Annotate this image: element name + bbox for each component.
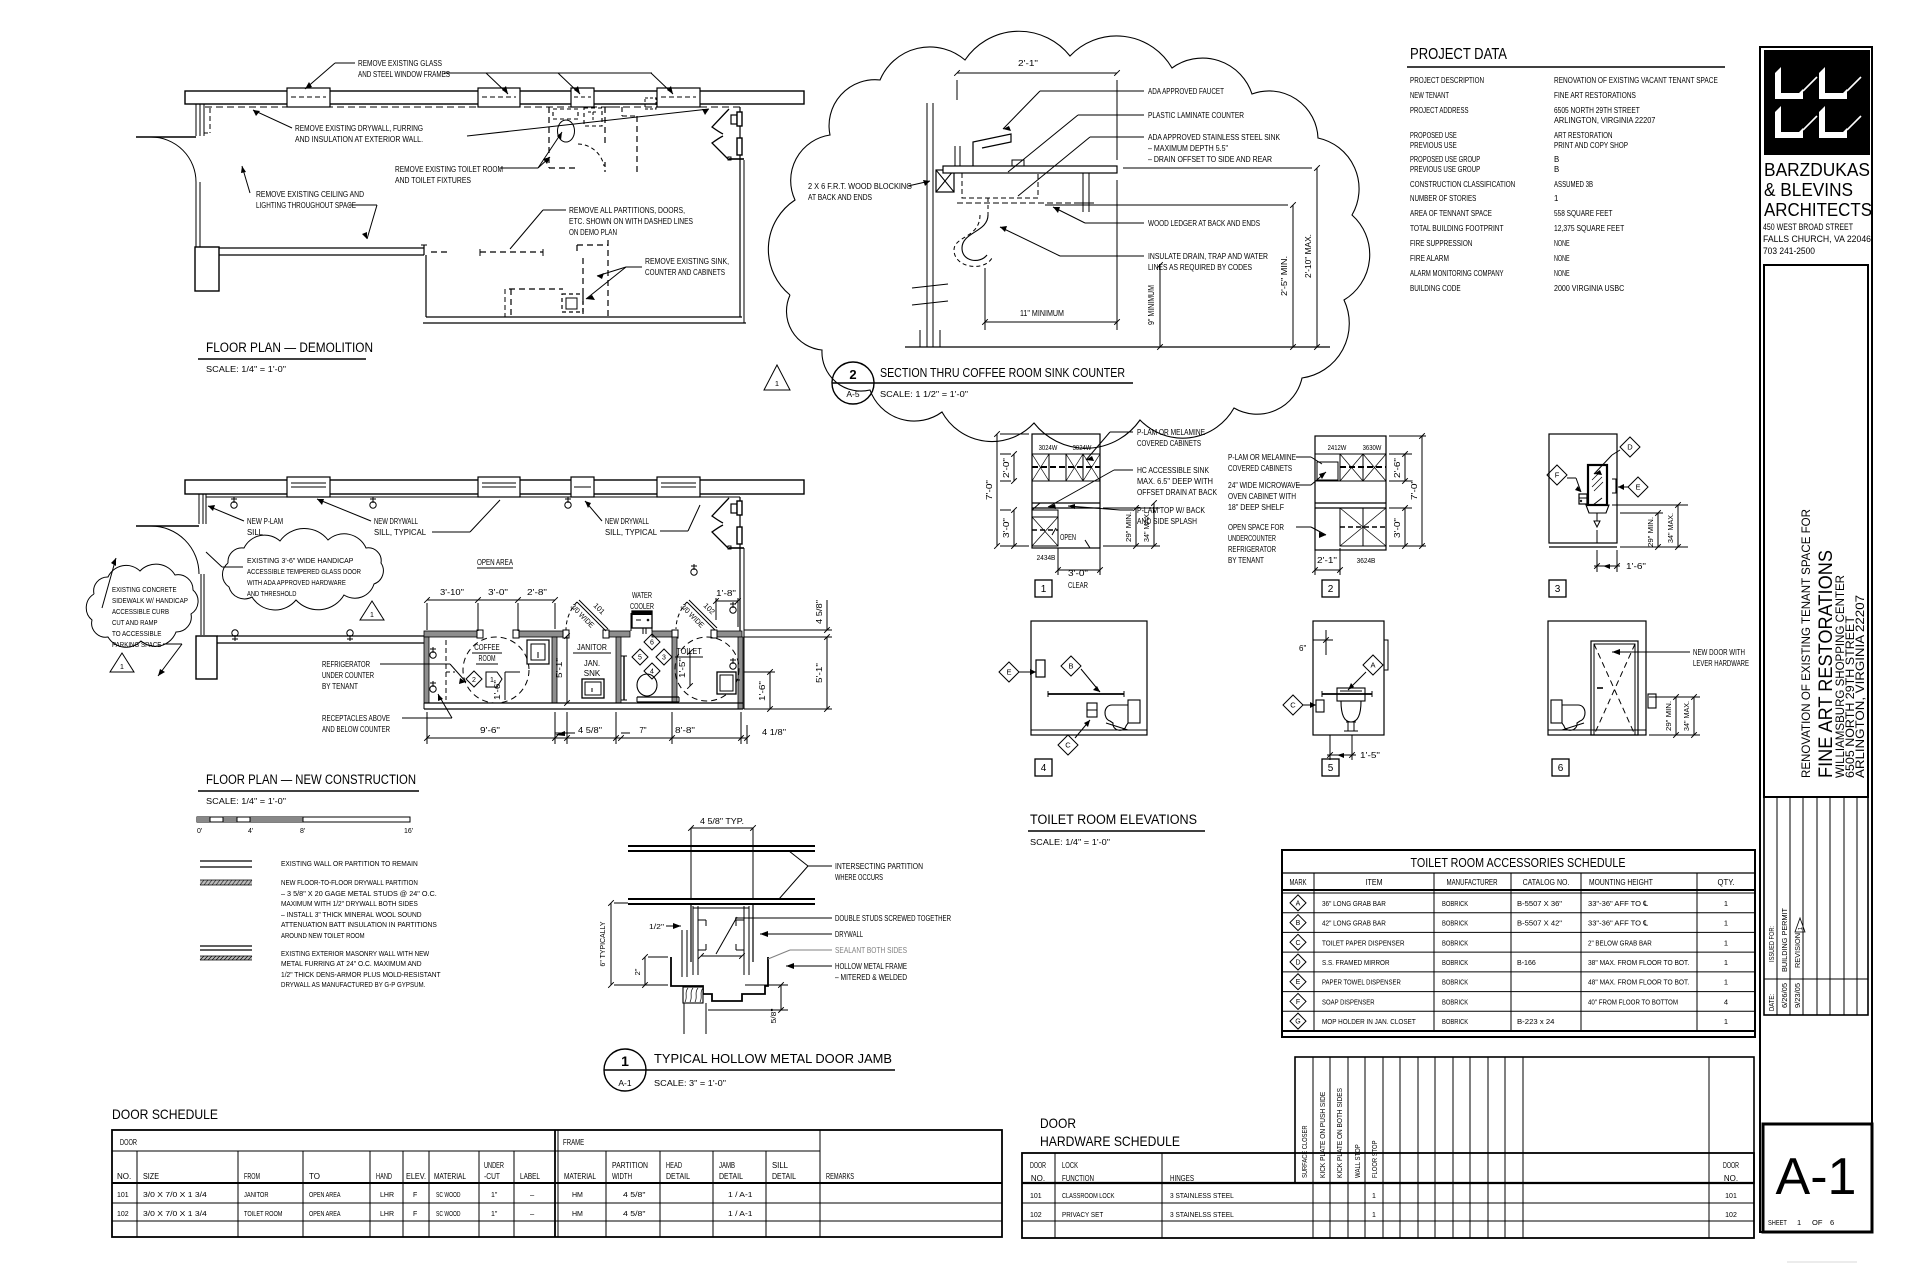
new plan entry door leaf bbox=[136, 525, 199, 527]
dimension 5'-1 right bbox=[826, 637, 828, 709]
svg-text:REVISION: REVISION bbox=[1795, 933, 1802, 968]
elevation 4 diamond E bbox=[999, 662, 1019, 682]
svg-text:1: 1 bbox=[370, 612, 374, 619]
svg-text:WIDTH: WIDTH bbox=[612, 1172, 632, 1181]
door schedule column lines bbox=[136, 1151, 138, 1237]
svg-text:DOOR: DOOR bbox=[1723, 1161, 1739, 1170]
svg-text:NONE: NONE bbox=[1554, 239, 1570, 248]
svg-text:PRINT AND COPY SHOP: PRINT AND COPY SHOP bbox=[1554, 141, 1628, 150]
toilet lavatory bbox=[717, 672, 736, 694]
svg-text:SIDEWALK W/ HANDICAP: SIDEWALK W/ HANDICAP bbox=[112, 596, 188, 605]
svg-text:METAL FURRING AT 24" O.C. MAXI: METAL FURRING AT 24" O.C. MAXIMUM AND bbox=[281, 959, 422, 968]
svg-text:4 5/8": 4 5/8" bbox=[623, 1190, 646, 1199]
new plan window mullion 2 bbox=[478, 477, 520, 497]
svg-text:JANITOR: JANITOR bbox=[577, 642, 607, 652]
svg-text:UNDERCOUNTER: UNDERCOUNTER bbox=[1228, 534, 1276, 543]
dimension 2'-10 max vertical bbox=[1316, 168, 1318, 347]
svg-text:3/0 X 7/0 X 1 3/4: 3/0 X 7/0 X 1 3/4 bbox=[143, 1190, 207, 1199]
svg-text:– INSTALL 3" THICK MINERAL WOO: – INSTALL 3" THICK MINERAL WOOL SOUND bbox=[281, 910, 422, 919]
triangle revision marker 1 at cloud bbox=[764, 365, 790, 390]
elevation 2 dims right bbox=[1389, 453, 1412, 455]
new plan entry side rect 2 bbox=[737, 527, 742, 544]
svg-text:ROOM: ROOM bbox=[479, 653, 496, 663]
svg-text:CUT AND RAMP: CUT AND RAMP bbox=[112, 618, 158, 627]
svg-text:HEAD: HEAD bbox=[666, 1161, 682, 1170]
leader from glass door cloud bbox=[222, 566, 243, 568]
elevation marker pentagon 1 bbox=[486, 672, 502, 687]
svg-text:FLOOR PLAN — NEW CONSTRUCTION: FLOOR PLAN — NEW CONSTRUCTION bbox=[206, 772, 416, 787]
cloud existing concrete sidewalk note bbox=[86, 564, 198, 647]
svg-text:– 3 5/8" X 20 GAGE METAL STUDS: – 3 5/8" X 20 GAGE METAL STUDS @ 24" O.C… bbox=[281, 889, 437, 898]
svg-text:102: 102 bbox=[1725, 1212, 1737, 1219]
new plan room block north wall segments bbox=[424, 631, 477, 637]
svg-text:RENOVATION OF EXISTING VACANT: RENOVATION OF EXISTING VACANT TENANT SPA… bbox=[1554, 76, 1718, 85]
svg-text:AND SIDE SPLASH: AND SIDE SPLASH bbox=[1137, 517, 1197, 526]
svg-text:B: B bbox=[1554, 165, 1559, 174]
svg-text:18" DEEP SHELF: 18" DEEP SHELF bbox=[1228, 503, 1284, 512]
svg-text:REMOVE EXISTING GLASS: REMOVE EXISTING GLASS bbox=[358, 59, 442, 68]
svg-text:1'-8": 1'-8" bbox=[716, 589, 736, 598]
svg-text:HM: HM bbox=[572, 1211, 583, 1218]
svg-text:AND BELOW COUNTER: AND BELOW COUNTER bbox=[322, 725, 390, 734]
svg-text:PROJECT ADDRESS: PROJECT ADDRESS bbox=[1410, 106, 1469, 115]
demolished sink dashed bbox=[553, 109, 578, 119]
leader from parking space text bbox=[163, 643, 182, 645]
svg-text:WHERE OCCURS: WHERE OCCURS bbox=[835, 873, 883, 882]
svg-text:1: 1 bbox=[775, 379, 779, 388]
demolition plan dashed drywall line at exterior wall bbox=[205, 106, 740, 108]
svg-text:CONSTRUCTION CLASSIFICATION: CONSTRUCTION CLASSIFICATION bbox=[1410, 180, 1515, 189]
svg-text:NEW DOOR WITH: NEW DOOR WITH bbox=[1693, 648, 1745, 657]
svg-text:ELEV.: ELEV. bbox=[406, 1172, 426, 1181]
svg-text:ON DEMO PLAN: ON DEMO PLAN bbox=[569, 228, 617, 237]
svg-text:FALLS CHURCH, VA 22046: FALLS CHURCH, VA 22046 bbox=[1763, 234, 1871, 244]
svg-text:4 5/8": 4 5/8" bbox=[815, 600, 824, 624]
svg-text:SILL, TYPICAL: SILL, TYPICAL bbox=[374, 528, 427, 537]
leader to dashed partitions bbox=[543, 209, 566, 211]
wall end caps bbox=[477, 630, 483, 638]
elevation 5 dim 1'-5 bbox=[1329, 735, 1331, 760]
svg-text:WATER: WATER bbox=[632, 591, 652, 600]
svg-text:LABEL: LABEL bbox=[520, 1172, 540, 1181]
legend new partition symbol bbox=[200, 880, 252, 885]
faint line below sheet box bbox=[1787, 1261, 1857, 1263]
svg-text:2'-10" MAX.: 2'-10" MAX. bbox=[1304, 234, 1313, 278]
section counter top bbox=[943, 166, 1117, 173]
svg-text:40" FROM FLOOR TO BOTTOM: 40" FROM FLOOR TO BOTTOM bbox=[1588, 997, 1678, 1006]
elevation 3 outline bbox=[1549, 434, 1617, 543]
coffee room sink bbox=[527, 640, 549, 664]
elevation 2 outline bbox=[1315, 436, 1386, 550]
svg-text:33"-36" AFF TO ℄: 33"-36" AFF TO ℄ bbox=[1588, 899, 1649, 908]
svg-text:SCALE: 1/4" = 1'-0": SCALE: 1/4" = 1'-0" bbox=[206, 365, 286, 374]
new plan entry bent door leaf top bbox=[712, 498, 729, 523]
svg-text:PROJECT DESCRIPTION: PROJECT DESCRIPTION bbox=[1410, 76, 1484, 85]
svg-text:ARLINGTON, VIRGINIA 22207: ARLINGTON, VIRGINIA 22207 bbox=[1554, 116, 1655, 125]
toilet grab bar west bbox=[623, 656, 625, 700]
svg-text:NEW P-LAM: NEW P-LAM bbox=[247, 517, 283, 526]
svg-text:1: 1 bbox=[621, 1053, 629, 1069]
svg-text:2: 2 bbox=[849, 367, 856, 382]
svg-text:PROPOSED USE GROUP: PROPOSED USE GROUP bbox=[1410, 155, 1480, 164]
svg-text:C: C bbox=[1065, 741, 1071, 750]
svg-text:COFFEE: COFFEE bbox=[474, 642, 500, 652]
svg-text:SC WOOD: SC WOOD bbox=[436, 1192, 461, 1199]
svg-text:A: A bbox=[1370, 661, 1375, 670]
svg-text:INTERSECTING PARTITION: INTERSECTING PARTITION bbox=[835, 862, 923, 871]
section wall base bbox=[919, 330, 921, 347]
svg-text:0': 0' bbox=[197, 828, 202, 835]
leader to exterior wall right bbox=[467, 109, 709, 136]
section counter end cap bbox=[1012, 160, 1024, 166]
svg-text:FRAME: FRAME bbox=[563, 1137, 584, 1147]
svg-text:4 5/8" TYP.: 4 5/8" TYP. bbox=[700, 817, 744, 826]
svg-text:2'-5" MIN.: 2'-5" MIN. bbox=[1280, 256, 1289, 296]
svg-text:-CUT: -CUT bbox=[484, 1172, 500, 1181]
svg-text:DRYWALL: DRYWALL bbox=[835, 930, 863, 939]
svg-text:FIRE SUPPRESSION: FIRE SUPPRESSION bbox=[1410, 239, 1472, 248]
svg-text:ISSUED FOR:: ISSUED FOR: bbox=[1769, 926, 1776, 962]
svg-text:NEW FLOOR-TO-FLOOR DRYWALL PAR: NEW FLOOR-TO-FLOOR DRYWALL PARTITION bbox=[281, 878, 418, 887]
new plan window mullion 3 bbox=[571, 477, 594, 497]
svg-text:KICK PLATE ON BOTH SIDES: KICK PLATE ON BOTH SIDES bbox=[1335, 1088, 1344, 1178]
svg-text:3/0 X 7/0 X 1 3/4: 3/0 X 7/0 X 1 3/4 bbox=[143, 1209, 207, 1218]
new plan drywall sill line bbox=[206, 496, 740, 498]
section sink bowl dashed bbox=[962, 173, 1038, 198]
svg-text:D: D bbox=[1295, 960, 1300, 967]
svg-text:QTY.: QTY. bbox=[1718, 877, 1735, 887]
svg-text:SC WOOD: SC WOOD bbox=[436, 1211, 461, 1218]
svg-text:RENOVATION OF EXISTING TENANT: RENOVATION OF EXISTING TENANT SPACE FOR bbox=[1799, 509, 1813, 778]
svg-text:2 X 6 F.R.T. WOOD BLOCKING: 2 X 6 F.R.T. WOOD BLOCKING bbox=[808, 182, 912, 191]
svg-text:PREVIOUS USE GROUP: PREVIOUS USE GROUP bbox=[1410, 165, 1480, 174]
svg-text:ETC. SHOWN ON WITH DASHED LINE: ETC. SHOWN ON WITH DASHED LINES bbox=[569, 217, 693, 226]
elevation 3 sink bbox=[1586, 505, 1609, 513]
dimension 9 inch minimum vertical bbox=[1159, 265, 1161, 347]
arrow from sidewalk cloud bbox=[102, 558, 116, 608]
svg-text:DOOR: DOOR bbox=[1030, 1161, 1046, 1170]
svg-text:PROJECT DATA: PROJECT DATA bbox=[1410, 46, 1507, 63]
jamb detail studs between partitions bbox=[690, 828, 692, 899]
svg-text:SHEET: SHEET bbox=[1768, 1218, 1787, 1227]
svg-text:5'-1": 5'-1" bbox=[555, 658, 564, 678]
svg-text:102: 102 bbox=[1030, 1212, 1042, 1219]
elevation 1 counter bbox=[1032, 502, 1100, 504]
demolished door swing dashed bbox=[578, 144, 604, 166]
elevation 5 grab bar side bbox=[1322, 693, 1372, 695]
svg-text:COUNTER AND CABINETS: COUNTER AND CABINETS bbox=[645, 268, 725, 277]
svg-text:REMOVE EXISTING TOILET ROOM: REMOVE EXISTING TOILET ROOM bbox=[395, 165, 503, 174]
svg-text:OPEN AREA: OPEN AREA bbox=[477, 558, 514, 567]
svg-text:BARZDUKAS: BARZDUKAS bbox=[1764, 160, 1870, 180]
svg-text:E: E bbox=[1006, 668, 1011, 677]
svg-text:F: F bbox=[413, 1211, 417, 1218]
demolition plan left pier bbox=[195, 247, 219, 291]
svg-text:COVERED CABINETS: COVERED CABINETS bbox=[1137, 439, 1201, 448]
svg-text:JAMB: JAMB bbox=[719, 1161, 735, 1170]
demolition plan entry side rect 1 bbox=[731, 115, 737, 124]
svg-text:2" BELOW GRAB BAR: 2" BELOW GRAB BAR bbox=[1588, 938, 1652, 947]
svg-text:BOBRICK: BOBRICK bbox=[1442, 938, 1468, 947]
dimension 1'-6 right bbox=[744, 671, 775, 673]
new plan left wall below door bbox=[200, 574, 202, 635]
svg-text:MANUFACTURER: MANUFACTURER bbox=[1447, 877, 1498, 887]
svg-text:33"-36" AFF TO ℄: 33"-36" AFF TO ℄ bbox=[1588, 919, 1649, 928]
svg-text:ASSUMED 3B: ASSUMED 3B bbox=[1554, 180, 1593, 189]
svg-text:6: 6 bbox=[1558, 763, 1564, 774]
svg-text:6: 6 bbox=[1830, 1218, 1834, 1227]
svg-text:1: 1 bbox=[1372, 1212, 1376, 1219]
janitor east wall bbox=[616, 637, 621, 703]
bottom dimension string bbox=[427, 737, 747, 739]
svg-text:NONE: NONE bbox=[1554, 269, 1570, 278]
svg-text:B: B bbox=[1296, 920, 1301, 927]
elevation 4 marker box bbox=[1035, 759, 1052, 776]
svg-text:LOCK: LOCK bbox=[1062, 1161, 1078, 1170]
svg-text:FUNCTION: FUNCTION bbox=[1062, 1174, 1094, 1183]
svg-text:AND STEEL WINDOW FRAMES: AND STEEL WINDOW FRAMES bbox=[358, 70, 450, 79]
elevation 1 marker box bbox=[1035, 580, 1052, 597]
jamb detail drywall faces bbox=[690, 904, 692, 962]
svg-text:ALARM MONITORING COMPANY: ALARM MONITORING COMPANY bbox=[1410, 269, 1504, 278]
svg-text:TOTAL BUILDING FOOTPRINT: TOTAL BUILDING FOOTPRINT bbox=[1410, 224, 1504, 233]
section wall break marks bbox=[912, 284, 948, 288]
svg-text:HARDWARE SCHEDULE: HARDWARE SCHEDULE bbox=[1040, 1133, 1180, 1149]
svg-text:OVEN CABINET WITH: OVEN CABINET WITH bbox=[1228, 492, 1296, 501]
svg-text:P-LAM OR MELAMINE: P-LAM OR MELAMINE bbox=[1137, 428, 1205, 437]
svg-text:9/23/05: 9/23/05 bbox=[1795, 983, 1802, 1008]
coffee janitor wall bbox=[552, 637, 557, 703]
svg-text:450 WEST BROAD STREET: 450 WEST BROAD STREET bbox=[1763, 222, 1853, 232]
svg-text:B: B bbox=[1554, 155, 1559, 164]
svg-text:1: 1 bbox=[1724, 899, 1728, 908]
svg-text:2'-8": 2'-8" bbox=[527, 588, 547, 597]
leader to exterior wall left bbox=[253, 110, 292, 128]
title block outer border bbox=[1760, 47, 1872, 1232]
svg-text:DOUBLE STUDS SCREWED TOGETHER: DOUBLE STUDS SCREWED TOGETHER bbox=[835, 914, 951, 923]
svg-text:LHR: LHR bbox=[380, 1211, 394, 1218]
svg-text:FINE ART RESTORATIONS: FINE ART RESTORATIONS bbox=[1554, 91, 1636, 100]
new plan entry bent door leaf bottom bbox=[712, 525, 729, 549]
jamb detail double studs bbox=[692, 906, 694, 975]
demolition plan step wall down bbox=[425, 255, 427, 317]
svg-text:1/2" THICK DENS-ARMOR PLUS MO: 1/2" THICK DENS-ARMOR PLUS MOLD-RESISTAN… bbox=[281, 970, 441, 979]
svg-text:101: 101 bbox=[1030, 1193, 1042, 1200]
elevation 4 toilet paper dispenser bbox=[1087, 703, 1097, 717]
svg-text:2'-1": 2'-1" bbox=[1317, 556, 1337, 565]
bottom dim extension lines bbox=[426, 712, 428, 744]
hardware main table bbox=[1022, 1153, 1754, 1238]
toilet room accessories schedule table bbox=[1282, 850, 1755, 1037]
svg-text:16': 16' bbox=[404, 828, 413, 835]
svg-text:ACCESSIBLE TEMPERED GLASS DOOR: ACCESSIBLE TEMPERED GLASS DOOR bbox=[247, 567, 361, 576]
triangle marker 1 at glass door cloud bbox=[360, 601, 384, 620]
svg-text:7'-0": 7'-0" bbox=[1410, 480, 1419, 500]
svg-text:S.S. FRAMED MIRROR: S.S. FRAMED MIRROR bbox=[1322, 958, 1390, 967]
svg-text:1: 1 bbox=[1797, 1218, 1801, 1227]
svg-text:1: 1 bbox=[1724, 978, 1728, 987]
section floor line bbox=[905, 346, 1330, 348]
svg-text:DATE:: DATE: bbox=[1769, 994, 1776, 1011]
svg-text:PRIVACY SET: PRIVACY SET bbox=[1062, 1210, 1104, 1219]
jamb detail wood blocking hatched bbox=[683, 987, 703, 1003]
svg-text:4: 4 bbox=[1041, 763, 1047, 774]
svg-text:WOOD LEDGER AT BACK AND ENDS: WOOD LEDGER AT BACK AND ENDS bbox=[1148, 219, 1260, 228]
leader arrow up bbox=[242, 166, 250, 193]
svg-text:2412W: 2412W bbox=[1328, 443, 1348, 452]
svg-text:29" MIN.: 29" MIN. bbox=[1124, 512, 1133, 542]
demolition plan window mullion 2 bbox=[478, 88, 520, 107]
svg-text:8'-8": 8'-8" bbox=[675, 726, 695, 735]
elevation 2 bottom labels bbox=[1315, 569, 1340, 571]
svg-text:1: 1 bbox=[1041, 584, 1047, 595]
dimension 1'-5 toilet rotated bbox=[689, 652, 691, 686]
section right counter support bbox=[1082, 173, 1084, 212]
jamb detail intersecting partition lines bbox=[628, 845, 815, 847]
svg-text:DRYWALL AS MANUFACTURED BY G-P: DRYWALL AS MANUFACTURED BY G-P GYPSUM. bbox=[281, 980, 425, 989]
svg-text:INSULATE DRAIN, TRAP AND WATER: INSULATE DRAIN, TRAP AND WATER bbox=[1148, 252, 1268, 261]
svg-text:OPEN AREA: OPEN AREA bbox=[309, 1211, 341, 1218]
svg-text:1'-6": 1'-6" bbox=[758, 681, 767, 701]
svg-text:NO.: NO. bbox=[1724, 1174, 1738, 1183]
demolition plan entry bent door leaf bottom bbox=[712, 136, 729, 160]
svg-text:REMOVE ALL PARTITIONS, DOORS,: REMOVE ALL PARTITIONS, DOORS, bbox=[569, 206, 685, 215]
demolished partition right of toilet bbox=[636, 116, 638, 172]
leader lines to window mullions bbox=[335, 62, 355, 64]
elevation 6 toilet side view bbox=[1551, 700, 1562, 723]
svg-text:703 241-2500: 703 241-2500 bbox=[1763, 246, 1815, 256]
svg-text:KICK PLATE ON PUSH SIDE: KICK PLATE ON PUSH SIDE bbox=[1318, 1092, 1327, 1178]
elevation 3 diamond markers bbox=[1620, 437, 1640, 457]
svg-text:BOBRICK: BOBRICK bbox=[1442, 899, 1468, 908]
elevation 5 marker box bbox=[1322, 759, 1339, 776]
svg-text:3'-0": 3'-0" bbox=[1002, 518, 1011, 538]
door 101 leaf bbox=[577, 602, 606, 631]
svg-text:2000 VIRGINIA USBC: 2000 VIRGINIA USBC bbox=[1554, 284, 1625, 293]
svg-text:SURFACE CLOSER: SURFACE CLOSER bbox=[1300, 1125, 1309, 1178]
svg-text:OPEN AREA: OPEN AREA bbox=[309, 1192, 341, 1199]
svg-text:2: 2 bbox=[1328, 584, 1334, 595]
elevation 3 marker box bbox=[1549, 580, 1566, 597]
svg-text:2'-6": 2'-6" bbox=[1393, 458, 1402, 478]
svg-text:HAND: HAND bbox=[376, 1172, 392, 1181]
legend existing wall symbol bbox=[200, 860, 252, 862]
svg-text:LIGHTING THROUGHOUT SPACE: LIGHTING THROUGHOUT SPACE bbox=[256, 201, 356, 210]
section title bubble bbox=[832, 362, 874, 404]
svg-text:42" LONG GRAB BAR: 42" LONG GRAB BAR bbox=[1322, 919, 1386, 928]
svg-text:EXISTING CONCRETE: EXISTING CONCRETE bbox=[112, 585, 177, 594]
svg-text:E: E bbox=[1296, 979, 1301, 986]
demolished lavatory dashed box bbox=[584, 108, 602, 126]
svg-text:OF: OF bbox=[1812, 1218, 1823, 1227]
svg-text:7'-0": 7'-0" bbox=[985, 480, 994, 500]
svg-text:NEW DRYWALL: NEW DRYWALL bbox=[605, 517, 649, 526]
svg-text:SCALE: 1/4" = 1'-0": SCALE: 1/4" = 1'-0" bbox=[206, 797, 286, 806]
legend masonry wall symbol bbox=[200, 945, 252, 947]
svg-text:NONE: NONE bbox=[1554, 254, 1570, 263]
svg-text:CLASSROOM LOCK: CLASSROOM LOCK bbox=[1062, 1191, 1115, 1200]
dimension row above rooms bbox=[427, 599, 555, 601]
elevation 1 upper cabinets bbox=[1032, 454, 1100, 481]
demolition plan entry side rect 2 bbox=[737, 138, 742, 155]
svg-text:SECTION THRU COFFEE ROOM SINK: SECTION THRU COFFEE ROOM SINK COUNTER bbox=[880, 365, 1125, 380]
svg-text:3'-10": 3'-10" bbox=[440, 588, 464, 597]
section wood blocking box with X bbox=[936, 170, 954, 192]
svg-text:D: D bbox=[1627, 443, 1633, 452]
elevation 4 diamond B bbox=[1061, 656, 1081, 676]
svg-text:AROUND NEW TOILET ROOM: AROUND NEW TOILET ROOM bbox=[281, 931, 365, 940]
svg-text:ACCESSIBLE CURB: ACCESSIBLE CURB bbox=[112, 607, 169, 616]
svg-text:3 STAINELSS STEEL: 3 STAINELSS STEEL bbox=[1170, 1210, 1234, 1219]
new plan right wall bbox=[739, 497, 741, 631]
demolished partition segment middle bbox=[480, 251, 543, 253]
svg-text:2434B: 2434B bbox=[1037, 553, 1056, 562]
svg-text:UNDER COUNTER: UNDER COUNTER bbox=[322, 671, 374, 680]
svg-text:CATALOG NO.: CATALOG NO. bbox=[1523, 877, 1570, 887]
svg-text:5: 5 bbox=[1328, 763, 1334, 774]
svg-text:HINGES: HINGES bbox=[1170, 1174, 1194, 1183]
svg-text:B-5507 X 42": B-5507 X 42" bbox=[1517, 919, 1562, 928]
svg-text:TOILET: TOILET bbox=[676, 646, 702, 656]
elevation 4 grab bar bbox=[1048, 693, 1124, 695]
project name box bbox=[1764, 265, 1868, 797]
svg-text:REFRIGERATOR: REFRIGERATOR bbox=[322, 660, 370, 669]
svg-text:NUMBER OF STORIES: NUMBER OF STORIES bbox=[1410, 194, 1476, 203]
dimension 2'-5 min vertical bbox=[1292, 205, 1294, 347]
svg-text:NO.: NO. bbox=[1031, 1174, 1045, 1183]
svg-text:DETAIL: DETAIL bbox=[772, 1172, 796, 1181]
svg-text:9" MINIMUM: 9" MINIMUM bbox=[1147, 285, 1156, 325]
svg-text:6/26/05: 6/26/05 bbox=[1782, 983, 1789, 1008]
svg-text:3024W: 3024W bbox=[1073, 443, 1093, 452]
svg-text:2: 2 bbox=[472, 677, 476, 684]
elevation 6 door bbox=[1591, 641, 1638, 735]
elevation 1 dims right 29-34 bbox=[1103, 507, 1160, 509]
demolished partition step dashes bbox=[607, 106, 622, 108]
svg-text:– MITERED & WELDED: – MITERED & WELDED bbox=[835, 973, 907, 982]
svg-text:101: 101 bbox=[117, 1192, 129, 1199]
svg-text:AND THRESHOLD: AND THRESHOLD bbox=[247, 589, 297, 598]
svg-text:1: 1 bbox=[1724, 1017, 1728, 1026]
svg-text:PARTITION: PARTITION bbox=[612, 1161, 648, 1170]
svg-text:11" MINIMUM: 11" MINIMUM bbox=[1020, 309, 1064, 318]
svg-text:A-1: A-1 bbox=[1776, 1148, 1857, 1206]
door schedule header underline bbox=[112, 1182, 1002, 1184]
svg-text:A-1: A-1 bbox=[618, 1078, 632, 1088]
svg-text:PARKING SPACE: PARKING SPACE bbox=[112, 640, 161, 649]
svg-text:2": 2" bbox=[633, 968, 642, 975]
section wall studs bbox=[926, 103, 928, 347]
demolished fixture small box bbox=[645, 98, 656, 109]
svg-text:BY TENANT: BY TENANT bbox=[1228, 556, 1264, 565]
elevation 2 counter bbox=[1315, 502, 1386, 504]
svg-text:3624B: 3624B bbox=[1357, 556, 1376, 565]
svg-text:8': 8' bbox=[300, 828, 305, 835]
jamb detail dim 2 inch bbox=[644, 957, 646, 985]
svg-text:1: 1 bbox=[1724, 958, 1728, 967]
svg-text:EXISTING EXTERIOR MASONRY WALL: EXISTING EXTERIOR MASONRY WALL WITH NEW bbox=[281, 949, 430, 958]
elevation 5 toilet front view bbox=[1337, 688, 1365, 701]
demolition plan dashed furring at left wall bbox=[209, 108, 211, 133]
logo L glyphs bbox=[1775, 67, 1781, 93]
jamb detail drywall return left bbox=[681, 930, 683, 977]
new plan entry door swing arc bbox=[151, 526, 199, 574]
svg-text:6: 6 bbox=[650, 640, 654, 647]
elevation 3 dim 1'-6 bbox=[1596, 550, 1598, 572]
svg-text:2'-1": 2'-1" bbox=[1018, 59, 1038, 68]
elevation 5 tp dispenser bbox=[1316, 700, 1324, 712]
svg-text:FROM: FROM bbox=[244, 1172, 260, 1181]
